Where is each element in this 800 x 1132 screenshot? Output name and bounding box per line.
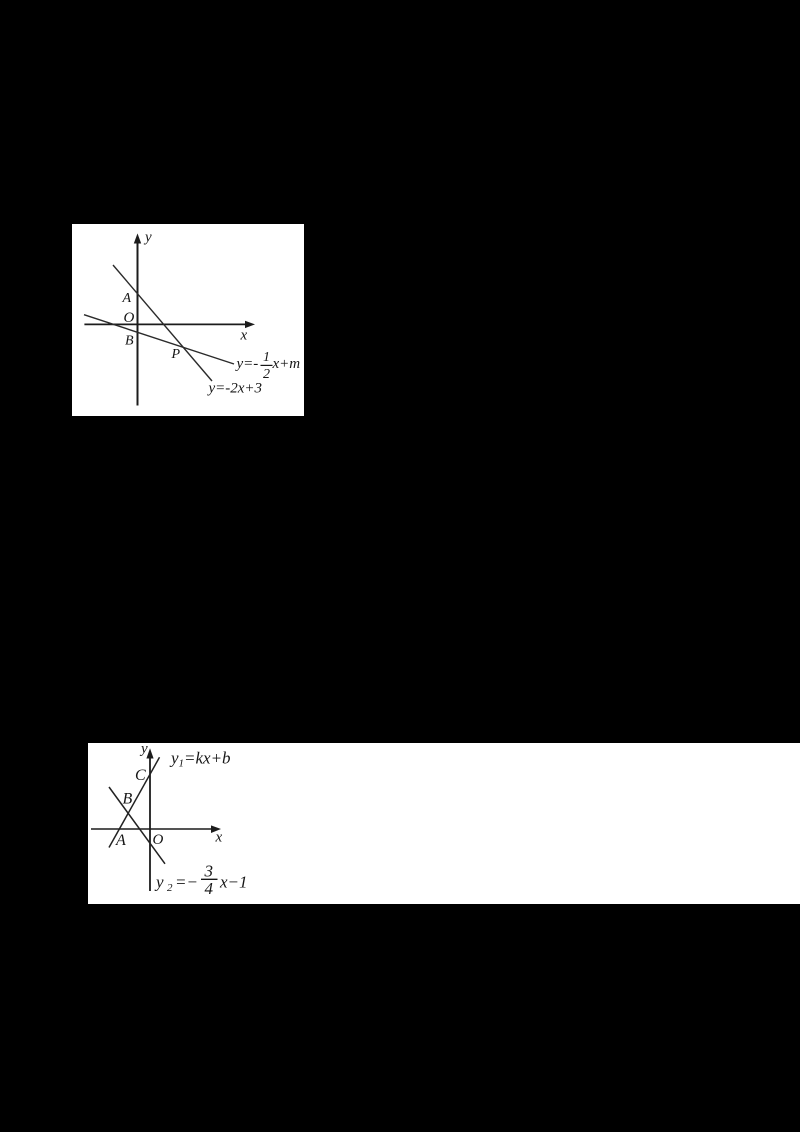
x-axis [84,323,248,325]
svg-text:y: y [154,873,164,892]
y-axis [149,755,151,891]
svg-text:y: y [143,230,152,246]
svg-text:P: P [171,347,181,362]
figure panel 2 [88,743,800,904]
figure panel 1 [72,224,304,416]
svg-text:O: O [153,832,164,848]
svg-text:O: O [124,310,135,326]
svg-text:y: y [139,743,148,757]
svg-text:y=-: y=- [235,356,259,372]
svg-text:B: B [125,334,134,349]
y-axis arrowhead [134,233,141,243]
line y=-2x+3 [113,265,212,381]
line y1=kx+b rising [109,757,160,847]
svg-text:1: 1 [263,350,270,365]
svg-text:x: x [215,830,223,846]
svg-text:A: A [122,291,132,306]
svg-text:=−: =− [175,873,198,892]
y-axis arrowhead [146,748,153,758]
svg-text:4: 4 [205,879,214,898]
svg-text:x−1: x−1 [219,873,248,892]
line y2 falling [109,787,165,864]
x-axis [91,828,214,830]
y-axis [137,241,139,406]
svg-text:2: 2 [263,367,270,382]
svg-text:y: y [169,749,179,768]
svg-text:x+m: x+m [272,356,301,372]
svg-text:B: B [123,791,133,808]
svg-text:C: C [135,767,146,784]
svg-text:A: A [115,832,126,849]
x-axis arrowhead [211,825,221,833]
x-axis arrowhead [245,321,255,328]
svg-text:=kx+b: =kx+b [184,749,231,768]
svg-text:2: 2 [167,882,173,894]
svg-text:y=-2x+3: y=-2x+3 [207,381,263,397]
svg-text:3: 3 [204,862,214,881]
svg-text:x: x [240,328,248,344]
line y=-1/2x+m [84,315,234,364]
